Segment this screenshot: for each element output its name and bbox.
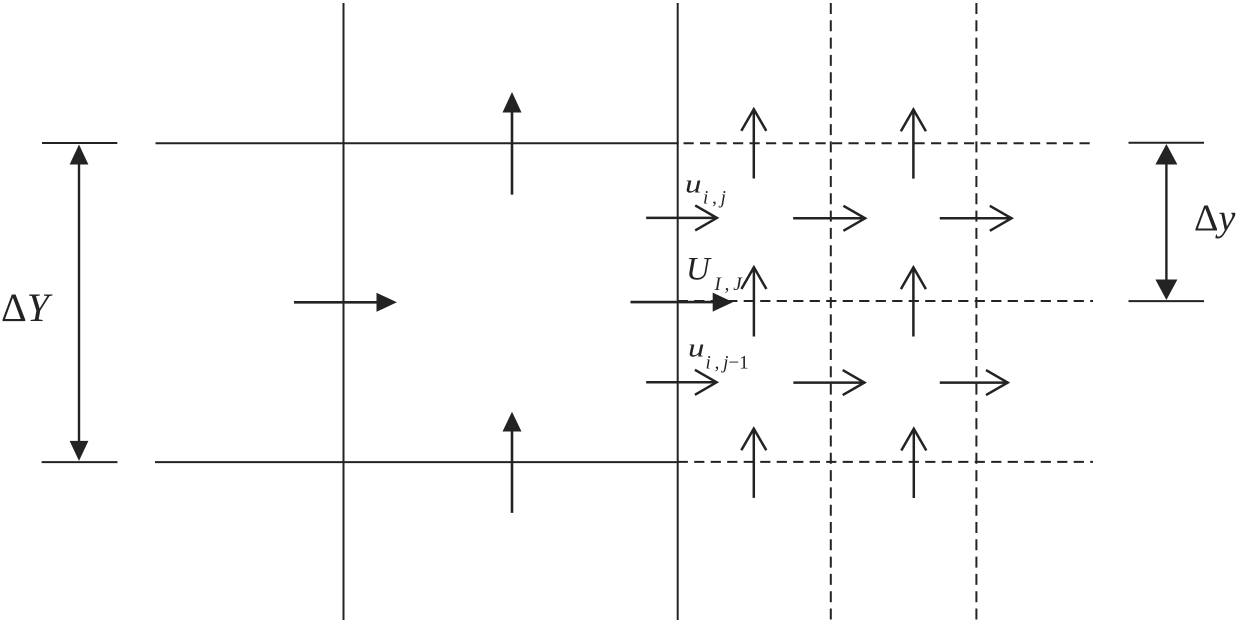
- wire: fine grid vertical dashed line 1: [830, 3, 832, 620]
- arrow: fine u rowA col1 (open head, crossing interface line): [647, 205, 717, 230]
- arrow: fine u rowB col2: [795, 370, 865, 395]
- arrow: fine u rowB col3: [941, 370, 1008, 395]
- wire: fine grid bottom horizontal dashed line: [678, 461, 1093, 463]
- svg-text:U: U: [686, 252, 712, 288]
- label U_IJ: [686, 252, 743, 296]
- arrow: coarse v-velocity bottom (filled head, x=512 crossing bottom line): [503, 412, 522, 513]
- svg-text:i , j: i , j: [703, 188, 726, 209]
- svg-text:I , J: I , J: [714, 274, 744, 295]
- svg-text:i , j−1: i , j−1: [706, 353, 749, 374]
- wire: coarse grid top horizontal line: [156, 142, 679, 144]
- arrow: fine v row2 col1 (crossing middle dashed line): [741, 267, 766, 335]
- arrow: fine v row1 col2: [901, 110, 926, 178]
- arrow: fine v row3 col1 (crossing bottom dashed line): [741, 429, 766, 497]
- arrow: fine v row2 col2: [901, 267, 926, 335]
- node: right dimension top tick: [1129, 142, 1205, 144]
- svg-text:u: u: [685, 170, 702, 199]
- label u_ij: [685, 170, 726, 209]
- arrow: fine v row1 col1 (open head, crossing top dashed line): [741, 109, 766, 177]
- wire: fine grid top horizontal dashed line: [684, 142, 1094, 144]
- node: left dimension top tick: [42, 142, 117, 144]
- wire: coarse grid vertical line 2 (grid interface): [677, 3, 679, 620]
- wire: coarse grid vertical line 1: [343, 3, 345, 620]
- wire: fine grid middle horizontal dashed line: [678, 300, 1093, 302]
- dimension arrow Dy (right double-headed vertical): [1155, 144, 1177, 300]
- arrow: coarse U_IJ velocity at interface (filled head, y=302 crossing vertical line 2): [631, 293, 734, 312]
- svg-text:Δy: Δy: [1194, 198, 1235, 240]
- svg-text:ΔY: ΔY: [1, 285, 53, 330]
- arrow: fine u rowA col3: [941, 206, 1012, 231]
- label u_ij-1: [688, 333, 749, 373]
- arrow: fine u rowA col2: [794, 206, 865, 231]
- dimension arrow DY (left double-headed vertical): [70, 145, 89, 461]
- arrow: fine v row3 col2: [901, 429, 926, 497]
- node: right dimension bottom tick: [1129, 300, 1205, 302]
- arrow: fine u rowB col1: [647, 370, 716, 395]
- wire: fine grid vertical dashed line 2: [975, 3, 977, 620]
- svg-text:u: u: [688, 333, 705, 362]
- wire: coarse grid bottom horizontal line: [155, 461, 679, 463]
- arrow: coarse v-velocity top (filled head, x=512 crossing top line): [503, 92, 522, 195]
- node: left dimension bottom tick: [42, 461, 118, 463]
- arrow: coarse u-velocity left (filled head, y=302 crossing vertical line 1): [294, 293, 397, 312]
